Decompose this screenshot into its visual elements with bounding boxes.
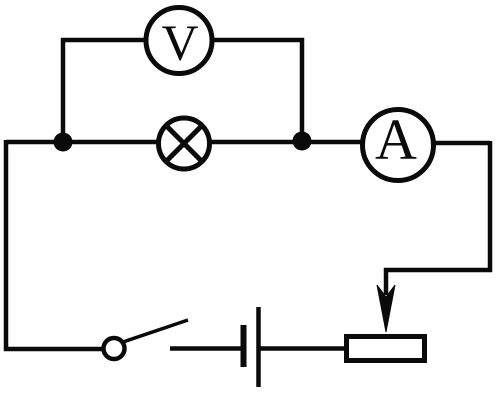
wire ammeter to right edge <box>434 141 490 146</box>
rheostat wiper arrow <box>377 285 395 332</box>
wire battery to rheostat <box>260 346 346 351</box>
wire left riser of voltmeter branch <box>63 40 145 143</box>
svg-text:A: A <box>375 107 417 172</box>
wire main row left segment <box>6 140 158 145</box>
wire left vertical and bottom to switch <box>6 140 103 349</box>
wire right riser of voltmeter branch <box>213 40 302 142</box>
wire right side down and over to wiper <box>386 141 490 295</box>
node right junction <box>293 132 312 151</box>
node left junction <box>54 133 73 152</box>
svg-text:V: V <box>162 16 199 72</box>
battery <box>244 307 259 387</box>
rheostat R <box>347 337 425 361</box>
switch <box>104 320 189 359</box>
lamp <box>159 118 210 169</box>
voltmeter V <box>146 8 212 74</box>
wire lamp to ammeter <box>210 140 361 145</box>
ammeter A <box>363 107 434 181</box>
wire switch fixed contact to battery <box>170 346 242 351</box>
